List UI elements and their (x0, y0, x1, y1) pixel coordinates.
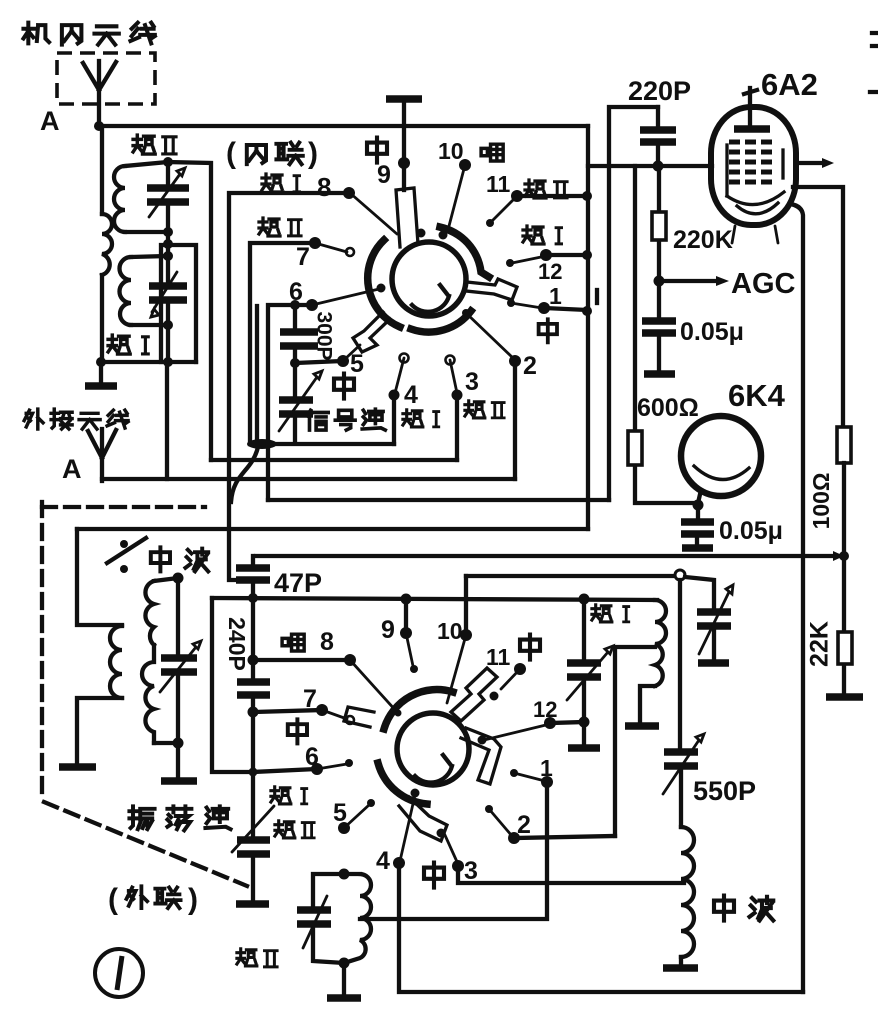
wire pin12 to trim1 (550, 722, 584, 723)
tube U1 6A2 envelope (711, 107, 796, 225)
rotor arc left (368, 240, 400, 327)
wire grid line y=166 (588, 164, 712, 168)
wire pin7 left and down x=250 (250, 243, 315, 444)
contact line pin8 to rotor (350, 193, 397, 234)
node AGC (654, 276, 665, 287)
junction (open) (675, 570, 685, 580)
label 短II (SW band 2 tank) (133, 135, 176, 154)
rotor arc top (384, 690, 453, 729)
pin 10 node (459, 159, 471, 171)
pin 6 node (306, 299, 318, 311)
contact pin1 (510, 769, 518, 777)
wire to trimmer2 (685, 577, 714, 611)
svg-text:): ) (188, 883, 198, 916)
svg-text:7: 7 (296, 243, 310, 271)
capacitor C-0.05u (cathode) (681, 522, 714, 534)
wire pin2 riser to ext antenna line (513, 361, 517, 479)
contact pin7 (322, 710, 347, 719)
wire pin7 feed y=711 (253, 710, 322, 712)
pin 11 node (511, 190, 523, 202)
contact pin2 (485, 805, 493, 813)
node SW2 tank top (339, 869, 350, 880)
rotor jaw (left, pin8) (344, 707, 374, 727)
capacitor C-osc (variable) (176, 578, 180, 743)
label 喇 (phono, pin 10) (481, 144, 503, 161)
svg-text:12: 12 (538, 259, 562, 284)
ground (22K) (826, 693, 863, 701)
contact jaw to pin5 (345, 345, 360, 359)
rotor arc bottom (378, 763, 427, 804)
label 短II (pin 3) (465, 401, 504, 418)
inductor L-SW2-osc (344, 874, 371, 963)
wire pin3 to MW coil tap (458, 866, 684, 883)
ground (SW2 osc) (342, 963, 346, 994)
label 短I (pin 4) (403, 410, 439, 427)
ground (osc tank) (176, 743, 180, 779)
svg-text:6A2: 6A2 (761, 67, 818, 102)
node osc bottom (173, 738, 184, 749)
pin 6 node (311, 763, 323, 775)
ground (antenna coil) (99, 364, 103, 384)
svg-text:A: A (40, 106, 60, 136)
svg-text:0.05μ: 0.05μ (680, 318, 744, 346)
label 中 (pin 9) (367, 138, 387, 163)
wire pin4 riser to bundle (392, 395, 396, 444)
wire y=444 bundle to pin4 (250, 442, 394, 446)
node (antenna coil bottom) (96, 357, 106, 367)
capacitor C-SW1 (variable) (166, 256, 170, 325)
coil bottom to ground (640, 686, 655, 724)
pin 7 node (316, 704, 328, 716)
svg-text:AGC: AGC (731, 268, 796, 300)
svg-text:8: 8 (317, 172, 331, 202)
antenna symbol (built-in) (83, 61, 116, 126)
label 中波 (medium wave) (151, 547, 208, 571)
wire switch output bus x=588 (586, 126, 590, 529)
svg-text:6: 6 (305, 743, 319, 771)
rotor arm right (to pin1) (466, 279, 517, 300)
pin 10 riser (464, 576, 468, 635)
svg-text:0.05μ: 0.05μ (719, 517, 783, 545)
contact pin6 to rotor (312, 289, 379, 305)
wire U1 output to IF (arrow) (796, 161, 824, 165)
contact pin6 (317, 764, 347, 769)
dashed enclosure for built-in antenna (57, 53, 155, 104)
pin 2 node (508, 832, 520, 844)
svg-text:(: ( (226, 137, 236, 170)
node pin12 junction (579, 717, 590, 728)
label 短I (pin 12) (523, 226, 562, 244)
label 短I 8 (pin 8) (262, 174, 300, 192)
label 短II (pin 11) (525, 180, 567, 198)
wire y=500 pin6 to 220P (268, 498, 609, 502)
svg-text:11: 11 (486, 644, 511, 670)
label 短I (mid) (271, 787, 307, 804)
svg-text:10: 10 (438, 138, 464, 164)
svg-text:2: 2 (517, 811, 531, 839)
svg-text:4: 4 (404, 381, 418, 409)
capacitor C-SW2b (variable) (313, 874, 344, 963)
label 外接天线 (external antenna) (24, 409, 128, 429)
wire antenna bus y=126 (99, 124, 588, 128)
contact pin10 to rotor (449, 165, 465, 226)
wire pin1 to SW2 coil tap (360, 782, 547, 919)
label 短II (trimmer) (275, 821, 314, 838)
antenna symbol (external) (88, 429, 116, 481)
svg-text:(: ( (108, 883, 118, 916)
svg-text:11: 11 (486, 171, 511, 197)
inductor L-osc secondary (154, 578, 178, 581)
pin 5 node (338, 822, 350, 834)
rotor ring (bottom switch) (397, 713, 469, 785)
wire AGC arrow (659, 279, 717, 283)
svg-text:1: 1 (549, 283, 562, 309)
resistor R-100 (837, 427, 851, 463)
rotor arm right (pin12) (461, 728, 501, 784)
svg-text:550P: 550P (693, 776, 756, 806)
capacitor C-trim1 (variable) (582, 599, 586, 746)
svg-text:9: 9 (377, 161, 391, 189)
ground (cathode cap) (682, 544, 713, 552)
label 中 (pin 7) (288, 719, 307, 743)
ground (osc primary) (59, 763, 96, 771)
label 中 (pin 1) (539, 319, 557, 342)
ground (AGC cap) (644, 370, 675, 378)
ground (trim2) (698, 659, 729, 667)
svg-text:600Ω: 600Ω (637, 394, 699, 422)
label 信号连 (signal gang) (307, 409, 385, 430)
label 短I (SW band 1 tank) (108, 335, 148, 354)
svg-text:47P: 47P (274, 568, 322, 598)
wire pin6 branch x=257 (255, 306, 259, 441)
node bottom (339, 958, 350, 969)
pin 7 node (309, 237, 321, 249)
wire SW2 tank to pin3 riser (168, 162, 211, 460)
rotor arm to pin9 (396, 188, 418, 247)
wire pin chain x=253 (251, 598, 255, 839)
contact pin9 (406, 633, 413, 666)
wire pin2 to coil tap riser (514, 836, 615, 838)
svg-text:10: 10 (437, 618, 463, 644)
inductor L1 primary (built-in antenna coil) (100, 126, 104, 364)
inductor L2 (SW2 coil) (125, 162, 168, 232)
wire S-curve to lower section (231, 447, 258, 502)
pin 1 node (541, 776, 553, 788)
wire main horizontal y=556 (256, 554, 844, 558)
inductor L3 (SW1 coil) (131, 256, 168, 325)
svg-text:7: 7 (303, 685, 317, 713)
tube U1 grids (729, 142, 772, 182)
pin 3 contact (446, 356, 455, 365)
wire oscillator box left (77, 529, 122, 625)
pin 3 node (452, 860, 464, 872)
wire pin8 to 47P x=229 (229, 193, 349, 580)
svg-text:5: 5 (333, 799, 347, 827)
svg-text:300P: 300P (312, 311, 335, 360)
rotor curl (412, 285, 449, 312)
contact pin5 (367, 799, 375, 807)
pin 11 node (514, 663, 526, 675)
contact pin7 (315, 243, 347, 252)
svg-text:8: 8 (320, 628, 334, 656)
label 短II (237, 949, 277, 967)
tube U1 heater stubs (732, 226, 778, 243)
pin 12 node (544, 717, 556, 729)
rotor arc top-right (440, 227, 489, 277)
wire y=529 oscillator link (77, 527, 588, 531)
wire bottom box top y=598 (212, 598, 657, 600)
inductor L-MW-osc (681, 827, 694, 957)
capacitor C-300P (293, 305, 297, 363)
contact pin8 to rotor jaw (350, 660, 397, 712)
capacitor C-550P (variable) (680, 580, 681, 827)
resistor R-220K (657, 166, 661, 281)
rotor arm lower-left (to pin5) (353, 312, 390, 352)
wire external antenna to pin2 y=479 (102, 477, 515, 481)
pin 9 node (398, 157, 410, 169)
contact pin12 (512, 256, 546, 263)
label 中 (pin 11) (520, 635, 540, 660)
svg-text:12: 12 (533, 697, 557, 722)
rotor arm bottom (pin3) (399, 797, 447, 841)
edge marks (870, 33, 878, 92)
ground (pad chain) (236, 900, 269, 908)
wire pin6 left and down x=268 to oscillator feed (268, 305, 312, 500)
wire bottom box left x=212 (212, 598, 317, 772)
svg-text:3: 3 (465, 368, 479, 396)
pin 9 riser (404, 599, 408, 633)
inductor L-osc primary (110, 626, 122, 698)
ground (rotor pin 9) (386, 95, 422, 103)
capacitor C-220P (656, 107, 660, 166)
label 短II (pin 7) (259, 218, 301, 236)
svg-text:100Ω: 100Ω (808, 473, 834, 530)
rotor curl (415, 755, 452, 783)
capacitor C-47P (236, 568, 270, 580)
contact pin12 to rotor (484, 724, 550, 740)
resistor R-600 (635, 166, 698, 503)
capacitor C-SW2-pad (variable) (237, 840, 270, 854)
contact arc to pin4 (411, 789, 420, 798)
contact pin11 (491, 196, 517, 222)
node 220P bottom / grid line (653, 161, 664, 172)
svg-text:6K4: 6K4 (728, 378, 786, 413)
dashed boundary (external gang) (40, 502, 44, 800)
svg-text:3: 3 (464, 857, 478, 885)
label 振荡连 (oscillator gang) (129, 806, 230, 830)
pin 5 node (337, 355, 349, 367)
rotor arc bottom (411, 311, 471, 332)
contact pin2 (462, 309, 470, 317)
node (SW2 tank top) (163, 157, 173, 167)
pin 12 node (540, 249, 552, 261)
wire y=460 SW2 tank to pin3 (211, 458, 457, 462)
band switch symbol (MW) (120, 540, 128, 548)
tube U1 grid rail + cathode (725, 145, 728, 196)
label 短I (right coil) (592, 605, 629, 622)
wire tank common y=362 (101, 360, 196, 364)
ground (MW osc coil) (663, 964, 698, 972)
tap to pin2 line (615, 647, 655, 836)
junction blob (wire bundle) (247, 439, 277, 449)
contact pin10 to rotor (447, 635, 466, 703)
wire U1 cathode to bottom bus x=803 (791, 204, 803, 992)
svg-text:4: 4 (376, 847, 390, 875)
pin 4 node (393, 857, 405, 869)
wire U1 to 100ohm x=843 (793, 187, 843, 427)
svg-text:9: 9 (381, 616, 395, 644)
wire 300P bottom to pin5 (295, 361, 343, 363)
node U2 cathode (698, 490, 701, 520)
svg-text:220K: 220K (673, 226, 733, 254)
capacitor C-trim (signal, variable) (293, 363, 297, 443)
pin 4 contact (400, 354, 409, 363)
wire pin3 riser (455, 395, 459, 460)
box around SW1 tank (161, 245, 196, 362)
resistor R-22K (842, 556, 846, 695)
svg-text:A: A (62, 454, 82, 484)
wire pin8 feed y=660 (253, 658, 350, 662)
capacitor C-SW2 (variable) (166, 162, 170, 232)
pin 8 node (bottom switch) (344, 654, 356, 666)
pin 2 node (509, 355, 521, 367)
pin 8 node (343, 187, 355, 199)
rotor ring (top switch) (392, 242, 466, 316)
contact pin1 (507, 299, 515, 307)
inductor L-SW1-osc (655, 600, 666, 686)
svg-text:240P: 240P (224, 617, 250, 671)
svg-text:): ) (308, 137, 318, 170)
label 喇 (phono) (282, 634, 304, 651)
tube U1 anode lead (744, 88, 757, 126)
label 中波 (714, 896, 773, 921)
junction (100ohm / 22K) (833, 551, 844, 561)
svg-text:2: 2 (523, 352, 537, 380)
label 机内天线 (built-in antenna) (23, 23, 154, 45)
rotor arm upper-right (pin11) (451, 668, 497, 721)
label 中 (pin 5) (334, 374, 354, 399)
capacitor C-0.05u (AGC) (657, 281, 661, 372)
capacitor C-trim2 (variable) (697, 612, 731, 626)
contact pin11 to rotor arm (501, 669, 520, 689)
svg-text:220P: 220P (628, 76, 691, 106)
pin 1 node (538, 302, 550, 314)
label 中 (pin 3) (424, 863, 444, 888)
node (tank junctions) (163, 239, 173, 249)
ground (trim1) (568, 744, 600, 752)
svg-text:1: 1 (540, 755, 553, 781)
figure number symbol 1 (95, 949, 143, 997)
capacitor C-240P (237, 682, 270, 695)
tube U2 6K4 (681, 416, 761, 496)
wire 220P top to oscillator x=609 (609, 107, 658, 500)
wire tank tail down (165, 362, 169, 479)
svg-text:22K: 22K (806, 621, 834, 667)
node osc top (173, 573, 184, 584)
wire pin4 to bottom bus (399, 863, 803, 992)
wire y=576 (466, 574, 675, 578)
